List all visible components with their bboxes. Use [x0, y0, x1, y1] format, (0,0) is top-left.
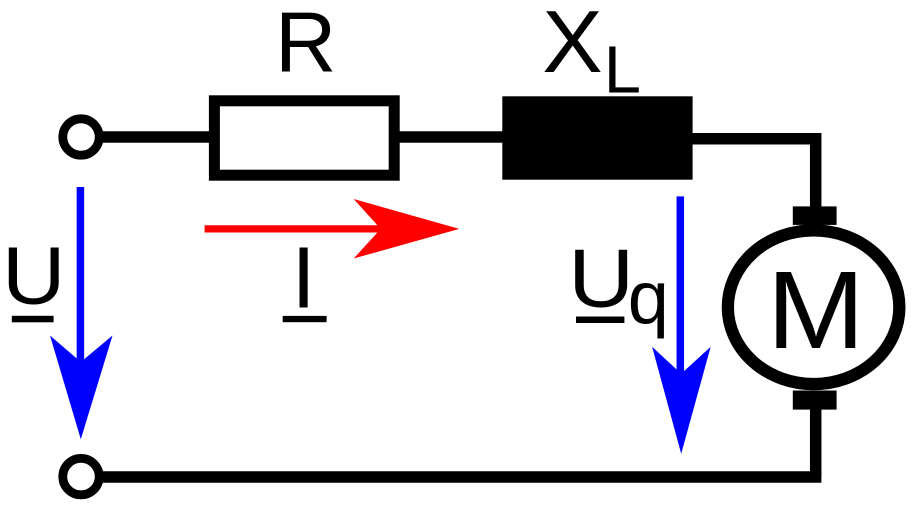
wire top-left segment	[98, 131, 214, 143]
current arrow I shaft	[205, 225, 385, 232]
voltage arrow U head	[50, 336, 113, 440]
current arrow I head	[354, 199, 460, 259]
voltage arrow U shaft	[77, 187, 85, 368]
svg-text:X: X	[542, 0, 602, 91]
motor M top terminal block	[793, 206, 837, 225]
label Uq underline	[576, 317, 624, 324]
svg-text:M: M	[767, 250, 865, 373]
inductor XL body	[502, 96, 692, 179]
label I underline	[283, 316, 327, 322]
svg-text:R: R	[275, 0, 336, 90]
wire between R and XL	[396, 131, 506, 143]
voltage arrow Uq head	[652, 347, 711, 454]
terminal top-left	[63, 119, 99, 155]
voltage arrow Uq shaft	[677, 196, 685, 380]
svg-text:U: U	[568, 232, 634, 324]
bottom wire	[98, 471, 821, 483]
motor M bottom terminal block	[793, 391, 837, 410]
resistor R1 body	[214, 101, 394, 175]
terminal bottom-left	[63, 458, 99, 494]
svg-text:L: L	[604, 32, 641, 107]
wire XL to motor (top right corner)	[690, 139, 816, 208]
svg-text:I: I	[292, 230, 316, 327]
motor M body	[728, 230, 900, 384]
wire motor bottom down	[810, 408, 822, 477]
svg-text:q: q	[628, 256, 669, 339]
svg-text:U: U	[2, 230, 65, 321]
label U underline	[12, 316, 54, 323]
